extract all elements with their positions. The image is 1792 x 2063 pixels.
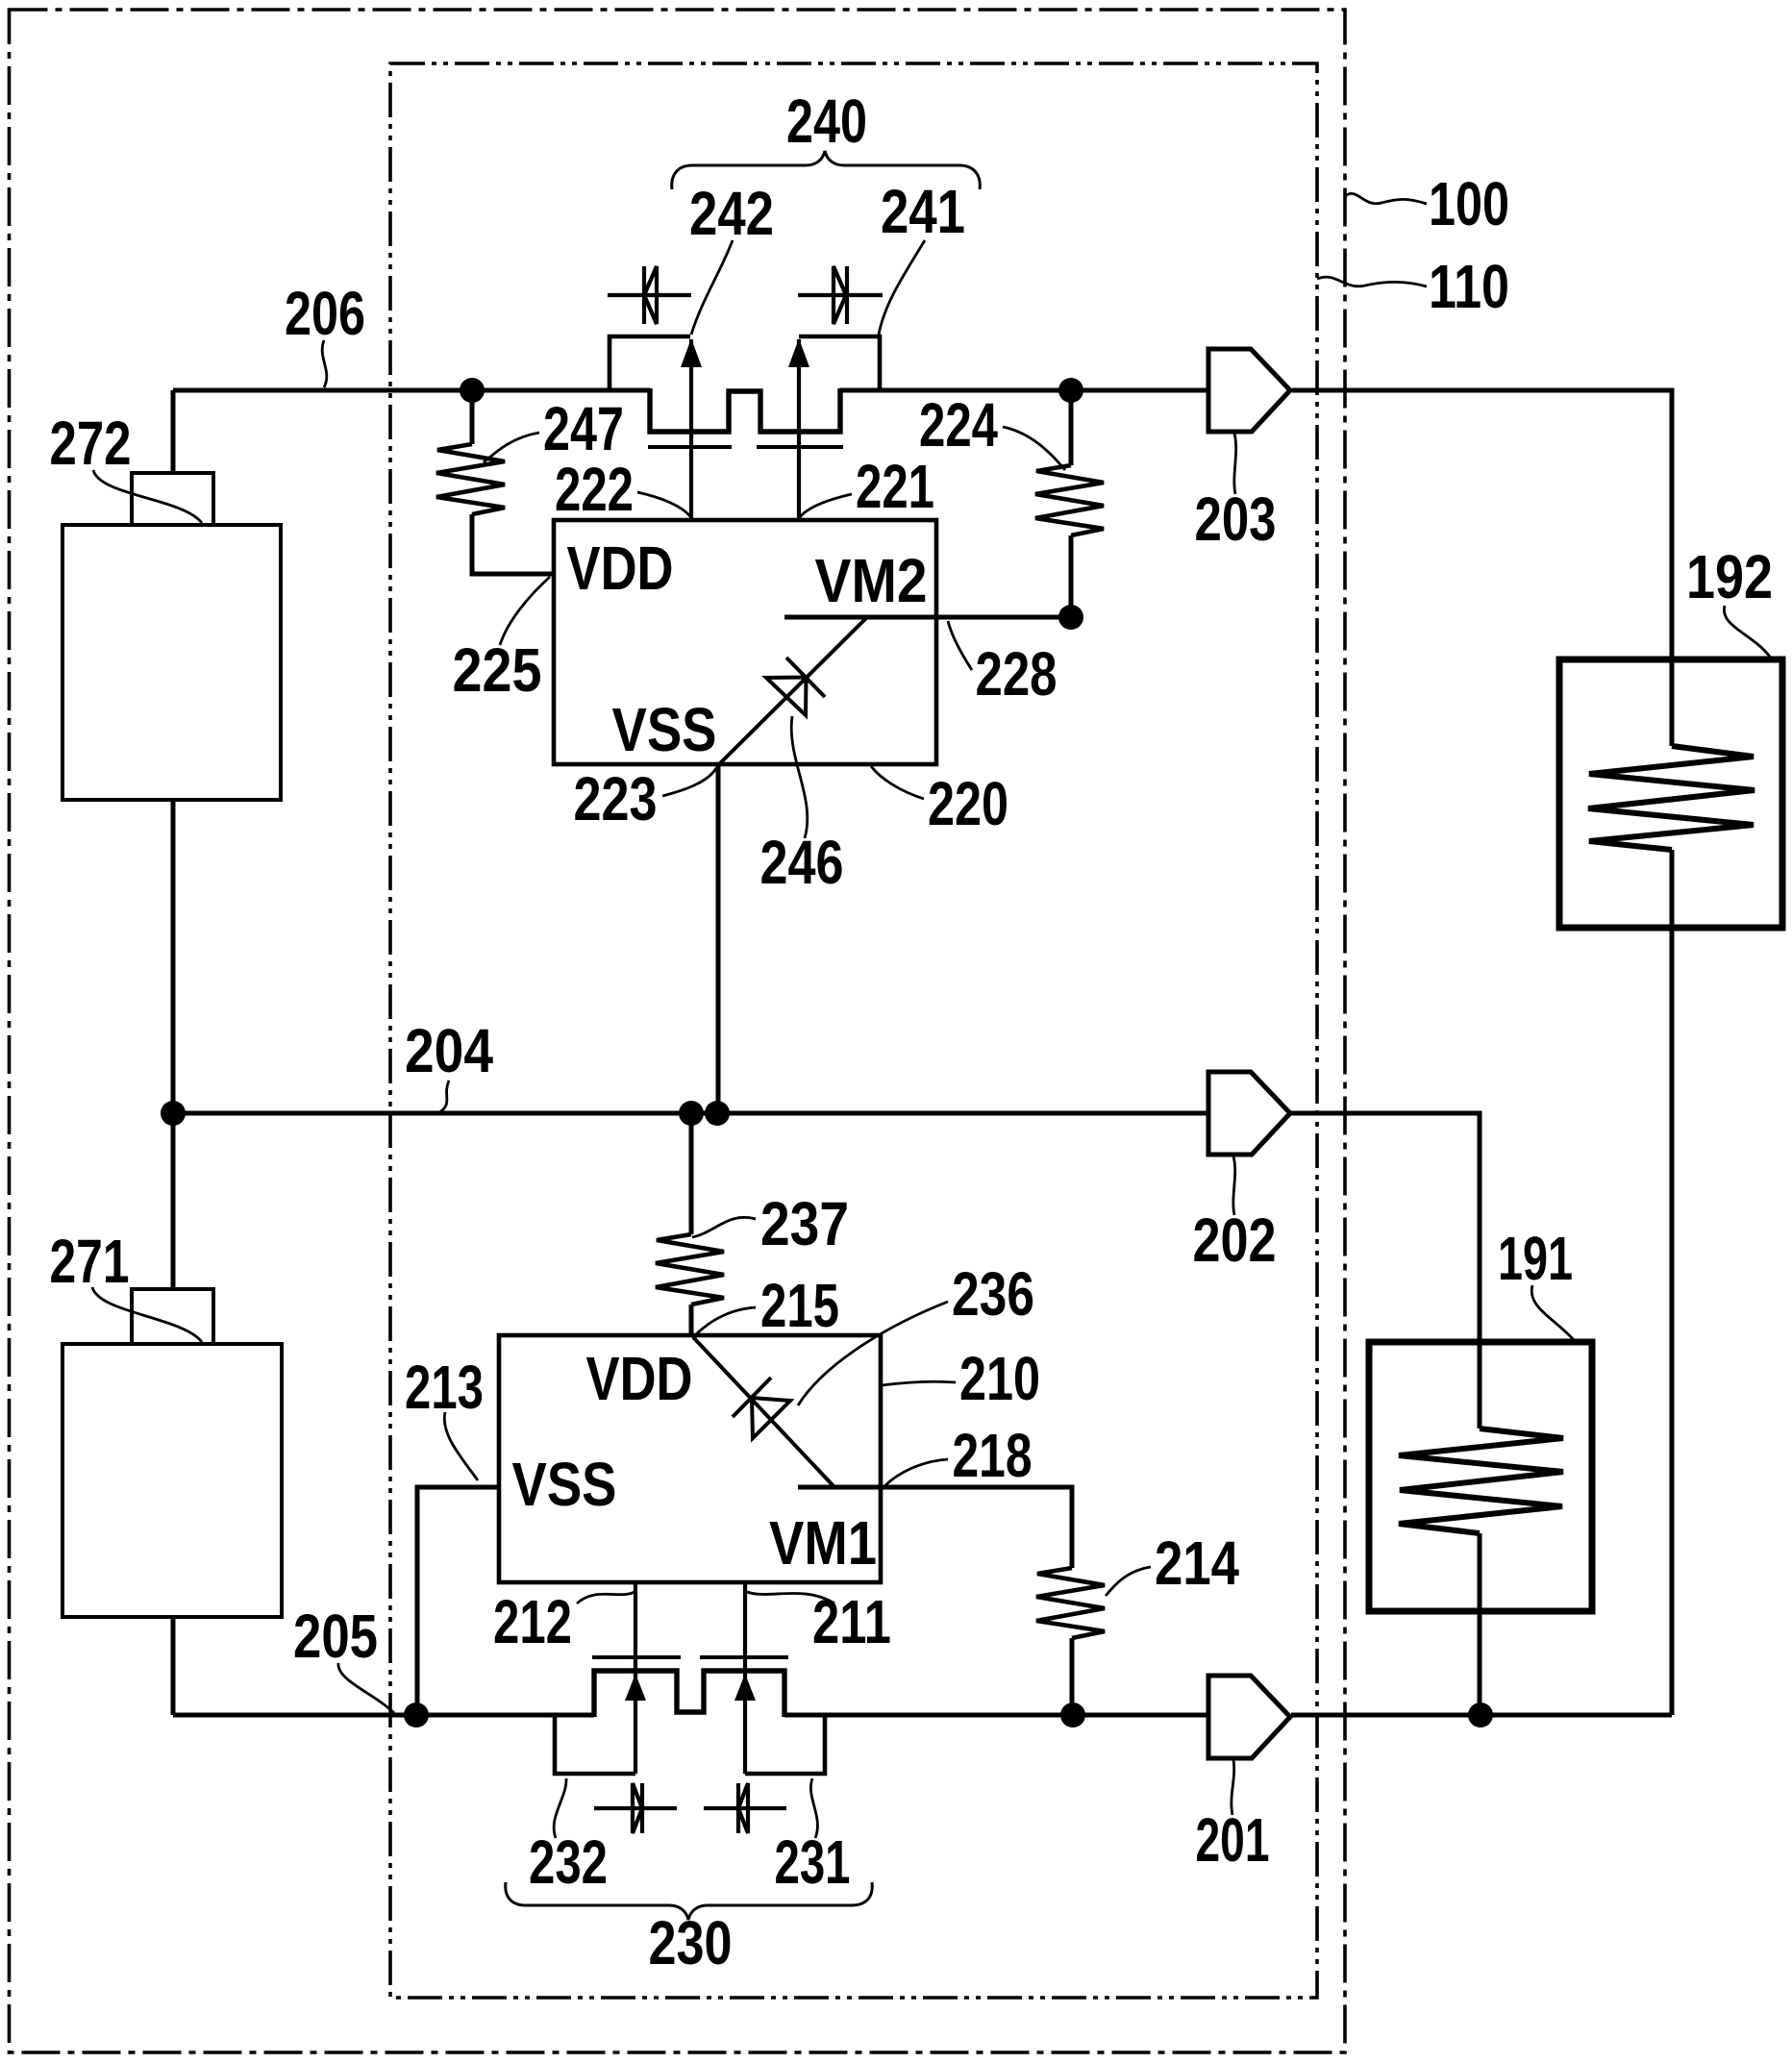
svg-text:220: 220 <box>928 769 1008 838</box>
svg-text:228: 228 <box>976 639 1058 708</box>
svg-text:240: 240 <box>786 87 867 156</box>
svg-text:VM1: VM1 <box>769 1508 877 1578</box>
svg-text:231: 231 <box>775 1827 851 1897</box>
svg-text:VSS: VSS <box>612 695 717 764</box>
svg-text:VDD: VDD <box>567 534 674 603</box>
svg-text:110: 110 <box>1429 252 1509 321</box>
svg-text:241: 241 <box>881 177 965 246</box>
svg-text:236: 236 <box>952 1259 1034 1329</box>
svg-text:246: 246 <box>760 828 844 897</box>
svg-text:VDD: VDD <box>586 1344 693 1413</box>
svg-text:232: 232 <box>529 1827 608 1897</box>
svg-text:205: 205 <box>293 1602 378 1671</box>
svg-text:215: 215 <box>760 1271 839 1340</box>
svg-text:221: 221 <box>856 452 934 521</box>
svg-text:237: 237 <box>760 1189 849 1258</box>
svg-text:202: 202 <box>1193 1205 1277 1275</box>
svg-text:223: 223 <box>574 764 658 833</box>
svg-text:218: 218 <box>953 1421 1033 1490</box>
svg-text:211: 211 <box>812 1587 891 1656</box>
svg-text:VM2: VM2 <box>815 546 928 615</box>
svg-text:VSS: VSS <box>512 1450 617 1519</box>
svg-text:100: 100 <box>1429 169 1509 238</box>
svg-text:214: 214 <box>1155 1529 1239 1598</box>
svg-text:203: 203 <box>1195 485 1277 554</box>
svg-text:242: 242 <box>689 179 774 248</box>
svg-text:201: 201 <box>1196 1805 1270 1875</box>
svg-text:191: 191 <box>1498 1224 1573 1293</box>
svg-text:224: 224 <box>919 390 998 460</box>
svg-text:230: 230 <box>649 1908 733 1977</box>
svg-text:206: 206 <box>285 279 365 348</box>
svg-text:204: 204 <box>405 1016 493 1085</box>
svg-text:213: 213 <box>405 1353 484 1422</box>
svg-text:192: 192 <box>1686 542 1773 611</box>
svg-text:212: 212 <box>493 1587 572 1656</box>
svg-text:210: 210 <box>959 1344 1040 1413</box>
svg-text:225: 225 <box>453 635 542 705</box>
svg-text:272: 272 <box>50 409 132 478</box>
svg-text:247: 247 <box>543 394 624 463</box>
svg-text:222: 222 <box>555 455 634 524</box>
svg-text:271: 271 <box>50 1227 130 1296</box>
